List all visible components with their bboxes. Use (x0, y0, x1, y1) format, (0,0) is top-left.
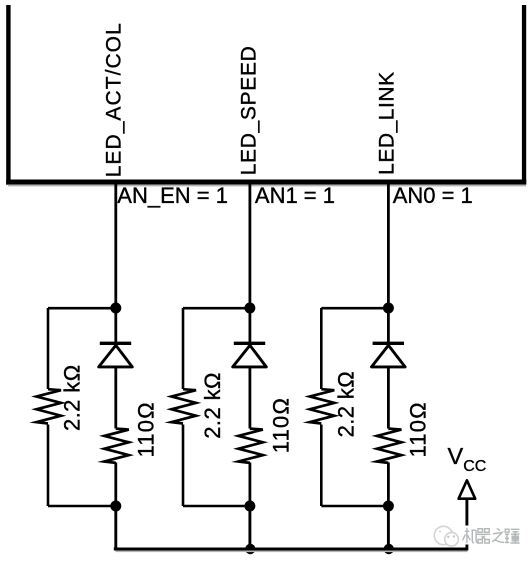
svg-text:AN0 = 1: AN0 = 1 (393, 183, 473, 208)
svg-text:110Ω: 110Ω (406, 401, 431, 457)
watermark glyph qi (477, 529, 491, 543)
resistor R4 110 zigzag (238, 429, 263, 463)
bottom supply rail wire (114, 548, 467, 551)
diode D2 bar (234, 342, 265, 345)
Vcc arrow head (459, 480, 476, 498)
watermark logo circle small (445, 532, 459, 546)
diode D1 triangle (99, 345, 133, 367)
resistor R6 110 zigzag (377, 429, 402, 463)
svg-text:110Ω: 110Ω (269, 397, 294, 453)
wire diode to resistor c2 (248, 366, 251, 429)
wire pin1 to node (114, 184, 117, 308)
wire bottom node to rail c1 (114, 506, 117, 550)
svg-text:2.2 kΩ: 2.2 kΩ (200, 372, 225, 439)
diode D3 triangle (372, 345, 406, 367)
watermark logo circle big (434, 526, 452, 544)
wire top horizontal c1 (48, 307, 116, 310)
svg-text:LED_SPEED: LED_SPEED (237, 46, 260, 176)
node dot bottom c1 (110, 501, 121, 512)
resistor R5 2.2k zigzag (310, 389, 335, 423)
svg-text:2.2 kΩ: 2.2 kΩ (334, 371, 359, 438)
resistor R2 110 zigzag (104, 429, 129, 463)
wire left branch upper c2 (182, 308, 185, 389)
wire left branch lower c1 (47, 425, 50, 507)
resistor R3 2.2k zigzag (172, 389, 197, 423)
wire node to diode c1 (114, 308, 117, 344)
wire node to diode c2 (248, 308, 251, 344)
wire top horizontal c3 (321, 307, 388, 310)
wire left branch lower c3 (320, 425, 323, 507)
node dot top c3 (383, 303, 394, 314)
wire node to diode c3 (387, 308, 390, 344)
svg-text:LED_ACT/COL: LED_ACT/COL (103, 22, 126, 177)
svg-text:AN1 = 1: AN1 = 1 (255, 183, 335, 208)
wire left branch lower c2 (182, 425, 185, 507)
wire bottom horizontal c1 (48, 505, 116, 508)
wire left branch upper c1 (47, 308, 50, 389)
wire Vcc branch (465, 499, 468, 550)
node dot bottom c3 (383, 501, 394, 512)
svg-text:AN_EN = 1: AN_EN = 1 (117, 183, 228, 208)
svg-text:2.2 kΩ: 2.2 kΩ (60, 364, 85, 431)
node dot rail c3 (384, 544, 394, 554)
svg-text:110Ω: 110Ω (134, 401, 159, 457)
watermark glyph ji (463, 528, 478, 543)
diode D2 triangle (233, 345, 267, 367)
watermark glyph zhi (492, 528, 504, 542)
node dot bottom c2 (244, 501, 255, 512)
diode D3 bar (373, 342, 404, 345)
watermark text backing (461, 526, 524, 545)
diode D1 bar (100, 342, 131, 345)
node dot rail c2 (245, 544, 255, 554)
wire left branch upper c3 (320, 308, 323, 389)
wire bottom node to rail c3 (387, 506, 390, 550)
wire bottom horizontal c3 (321, 505, 388, 508)
node dot top c1 (110, 303, 121, 314)
wire diode to resistor c3 (387, 366, 390, 429)
svg-text:LED_LINK: LED_LINK (376, 71, 399, 175)
wire diode to resistor c1 (114, 366, 117, 429)
svg-text:VCC: VCC (448, 443, 487, 475)
wire resistor to bottom node c3 (387, 463, 390, 507)
wire pin3 to node (387, 184, 390, 308)
IC box (cropped at top): left border (6, 5, 10, 185)
wire pin2 to node (248, 184, 251, 308)
watermark logo eyes (447, 536, 449, 538)
IC box bottom border (6, 180, 526, 185)
watermark glyph zhong (505, 529, 520, 543)
resistor R1 2.2k zigzag (37, 389, 62, 423)
wire resistor to bottom node c1 (114, 463, 117, 507)
node dot top c2 (244, 303, 255, 314)
IC box bottom border shadow (8, 185, 526, 187)
wire bottom horizontal c2 (183, 505, 250, 508)
wire bottom node to rail c2 (248, 506, 251, 550)
wire top horizontal c2 (183, 307, 250, 310)
IC box right border (522, 5, 526, 185)
wire resistor to bottom node c2 (248, 463, 251, 507)
rail shadow (116, 551, 468, 553)
